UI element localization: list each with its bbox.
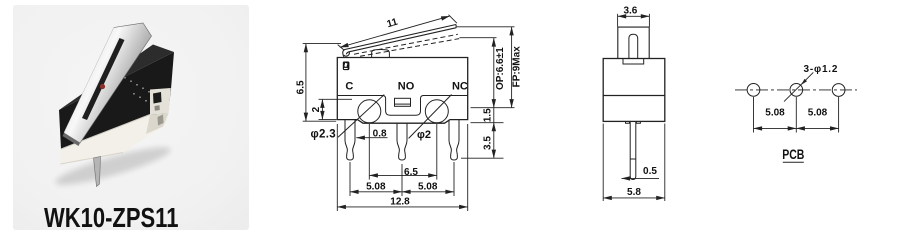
svg-text:2: 2 bbox=[311, 106, 322, 112]
svg-text:5.8: 5.8 bbox=[627, 187, 641, 198]
svg-text:3-φ1.2: 3-φ1.2 bbox=[804, 64, 839, 75]
svg-text:C: C bbox=[345, 81, 353, 93]
svg-text:0.5: 0.5 bbox=[643, 166, 657, 177]
svg-text:6.5: 6.5 bbox=[404, 167, 418, 178]
svg-text:FP:9Max: FP:9Max bbox=[511, 46, 522, 88]
svg-text:3.6: 3.6 bbox=[623, 6, 637, 17]
svg-text:12.8: 12.8 bbox=[390, 197, 410, 208]
svg-text:6.5: 6.5 bbox=[295, 80, 306, 94]
svg-text:5.08: 5.08 bbox=[808, 108, 828, 119]
svg-text:NO: NO bbox=[398, 81, 415, 93]
svg-text:OP:6.6±1: OP:6.6±1 bbox=[495, 47, 506, 90]
svg-text:5.08: 5.08 bbox=[418, 182, 438, 193]
svg-text:NC: NC bbox=[452, 81, 468, 93]
svg-text:PCB: PCB bbox=[782, 147, 804, 163]
svg-text:φ2.3: φ2.3 bbox=[311, 129, 336, 141]
svg-text:5.08: 5.08 bbox=[765, 108, 785, 119]
svg-text:3.5: 3.5 bbox=[483, 136, 494, 150]
svg-text:WK10-ZPS11: WK10-ZPS11 bbox=[44, 203, 179, 234]
svg-text:0.8: 0.8 bbox=[373, 129, 387, 140]
svg-text:1.5: 1.5 bbox=[483, 108, 494, 122]
svg-text:5.08: 5.08 bbox=[366, 182, 386, 193]
svg-text:11: 11 bbox=[386, 17, 400, 31]
svg-text:φ2: φ2 bbox=[417, 129, 431, 141]
